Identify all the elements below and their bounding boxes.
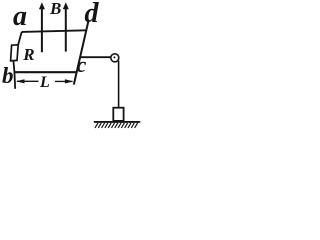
wire left side a to resistor [18,32,22,46]
dimension L arrow left [17,80,39,82]
wire hanging string [118,61,120,108]
dimension L arrow right [55,80,72,82]
node label b [2,64,14,87]
weight block [113,108,123,121]
wire bottom rail b-c [14,71,76,73]
B field arrow 1 [41,7,43,52]
wire top rail a-d [22,30,87,32]
pulley [111,54,119,62]
node label a [13,3,27,31]
ground line [94,121,140,123]
label L [40,75,50,91]
node label c [77,54,87,76]
wire resistor to b corner and tick below [13,61,15,89]
resistor R [11,45,19,61]
node label d [85,0,99,28]
wire string from rod to pulley [80,56,112,58]
rod d-c (slanted, extended below rail as dimension tick) [74,22,89,85]
label B [50,0,61,17]
ground hatching [95,123,138,128]
B field arrow 2 [65,7,67,52]
label R [23,46,34,63]
